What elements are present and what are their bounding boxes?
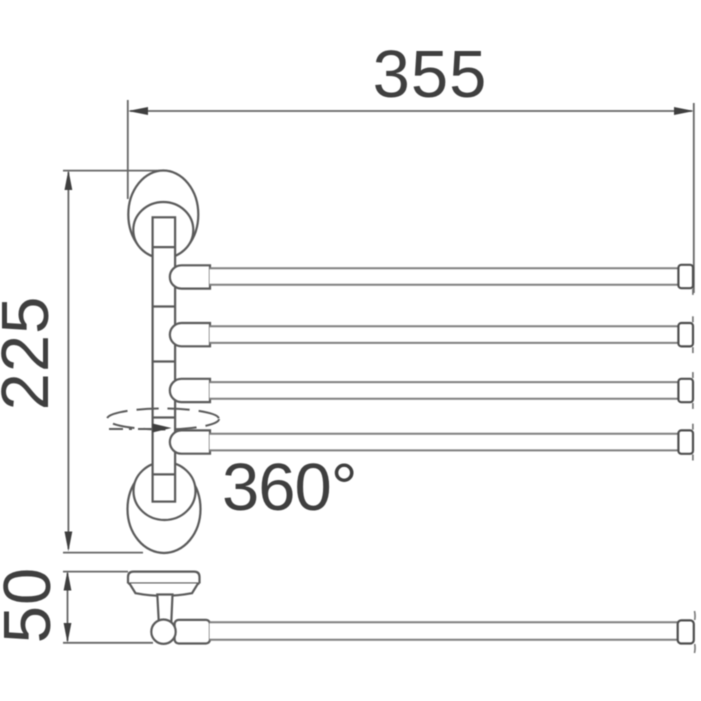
cap 2 end ticks bbox=[692, 316, 694, 322]
side-view wall plate rim bbox=[128, 582, 200, 584]
side-view arm collar bbox=[175, 620, 210, 644]
side-view swivel ball bbox=[151, 620, 175, 644]
rotation arrowhead bbox=[153, 424, 172, 433]
extension line 355 right bbox=[693, 103, 695, 293]
svg-text:225: 225 bbox=[0, 296, 63, 411]
side-view wall plate bowl bbox=[130, 584, 199, 596]
bar end cap 1 bbox=[678, 265, 693, 288]
swivel post bbox=[153, 217, 176, 501]
arm collar 3 bbox=[170, 379, 210, 402]
bar end cap 2 bbox=[678, 323, 693, 346]
arm collar 1 bbox=[170, 265, 210, 288]
extension line 50 top bbox=[63, 571, 128, 573]
extension line 225 top bbox=[63, 170, 167, 172]
arm collar 2 bbox=[170, 323, 210, 346]
extension line 225 bottom bbox=[63, 552, 143, 554]
post joint line 3 bbox=[153, 360, 176, 362]
rotation centerline dash-dot bbox=[109, 428, 154, 430]
post joint line 5 bbox=[153, 473, 176, 475]
side-view towel bar bbox=[210, 622, 679, 640]
arm collar 4 bbox=[170, 430, 210, 453]
side-view cap end tick top bbox=[694, 611, 697, 620]
bottom wall-mount oval plate bbox=[128, 465, 201, 553]
post joint line 1 bbox=[153, 246, 176, 248]
rotation dashed ellipse bbox=[107, 409, 219, 430]
towel bar 1 bbox=[210, 268, 679, 285]
svg-text:355: 355 bbox=[373, 37, 488, 112]
top wall-mount flange circle bbox=[133, 202, 193, 258]
side-view bar end cap bbox=[678, 620, 694, 643]
post joint line 4 bbox=[153, 416, 176, 418]
svg-text:360°: 360° bbox=[222, 450, 357, 525]
extension line 355 left bbox=[127, 100, 129, 199]
top wall-mount oval plate bbox=[128, 171, 198, 259]
bar end cap 3 bbox=[678, 379, 693, 402]
bar end cap 4 bbox=[678, 430, 693, 453]
cap 3 end ticks bbox=[692, 372, 694, 378]
towel bar 3 bbox=[210, 382, 679, 399]
dimension line 225 bbox=[65, 170, 73, 552]
post joint line 2 bbox=[153, 305, 176, 307]
svg-text:50: 50 bbox=[0, 567, 65, 644]
side-view cap end tick bottom bbox=[694, 644, 697, 653]
towel bar 2 bbox=[210, 326, 679, 343]
side-view stem bbox=[157, 595, 172, 623]
dimension line 50 bbox=[64, 571, 72, 644]
towel bar 4 bbox=[210, 434, 679, 451]
bottom wall-mount flange circle bbox=[134, 462, 196, 520]
extension line 50 bottom bbox=[63, 642, 153, 644]
cap 1 end tick bbox=[692, 289, 694, 295]
cap 4 end ticks bbox=[692, 424, 694, 430]
dimension line 355 bbox=[128, 107, 694, 115]
side-view wall plate top bbox=[128, 572, 200, 584]
